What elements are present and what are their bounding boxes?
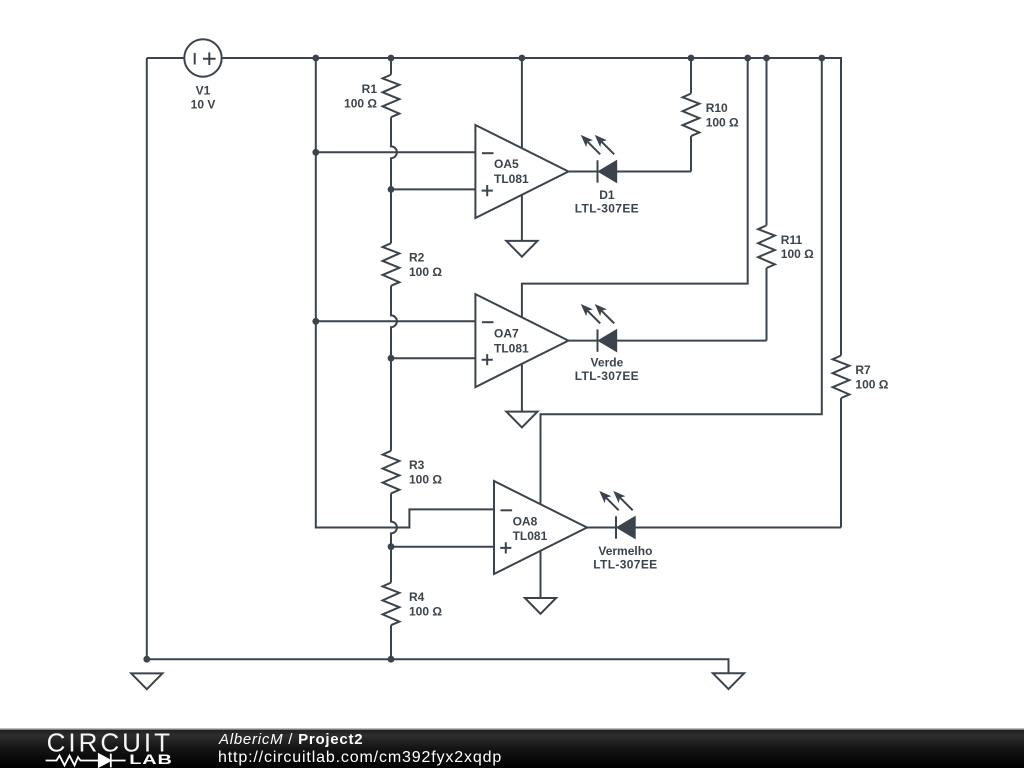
svg-text:R1: R1 <box>362 82 378 96</box>
svg-text:LTL-307EE: LTL-307EE <box>593 557 657 571</box>
svg-text:OA7: OA7 <box>494 327 519 341</box>
svg-text:AlbericM / Project2: AlbericM / Project2 <box>218 731 363 748</box>
svg-text:R3: R3 <box>409 458 425 472</box>
svg-text:100 Ω: 100 Ω <box>706 115 739 129</box>
svg-text:R11: R11 <box>781 233 803 247</box>
svg-text:LTL-307EE: LTL-307EE <box>575 369 639 383</box>
svg-text:Verde: Verde <box>591 356 624 370</box>
svg-text:LAB: LAB <box>129 751 172 767</box>
svg-text:http://circuitlab.com/cm392fyx: http://circuitlab.com/cm392fyx2xqdp <box>218 749 502 766</box>
svg-text:100 Ω: 100 Ω <box>344 96 377 110</box>
svg-text:100 Ω: 100 Ω <box>781 247 814 261</box>
svg-text:10 V: 10 V <box>191 97 216 111</box>
svg-text:100 Ω: 100 Ω <box>409 265 442 279</box>
svg-text:OA5: OA5 <box>494 157 519 171</box>
svg-text:TL081: TL081 <box>513 529 548 543</box>
svg-text:TL081: TL081 <box>494 341 529 355</box>
svg-text:R4: R4 <box>409 590 425 604</box>
svg-text:100 Ω: 100 Ω <box>409 473 442 487</box>
svg-text:V1: V1 <box>196 84 211 98</box>
svg-text:R2: R2 <box>409 251 425 265</box>
svg-text:TL081: TL081 <box>494 172 529 186</box>
svg-text:100 Ω: 100 Ω <box>855 377 888 391</box>
svg-text:R7: R7 <box>855 363 871 377</box>
svg-text:D1: D1 <box>599 188 615 202</box>
svg-text:R10: R10 <box>706 101 728 115</box>
svg-text:OA8: OA8 <box>513 515 538 529</box>
svg-text:Vermelho: Vermelho <box>598 544 652 558</box>
svg-text:LTL-307EE: LTL-307EE <box>575 201 639 215</box>
svg-text:100 Ω: 100 Ω <box>409 604 442 618</box>
